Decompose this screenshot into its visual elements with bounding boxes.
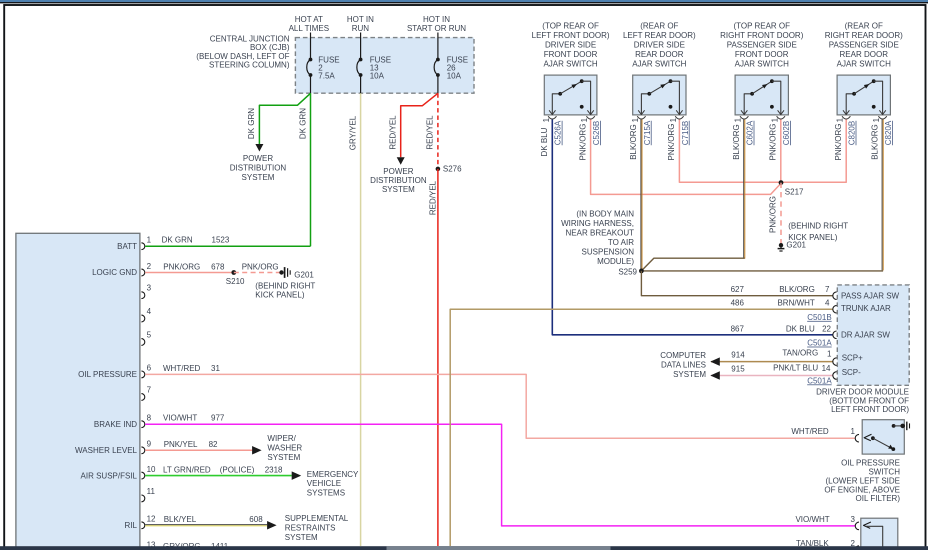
svg-text:PNK/ORG: PNK/ORG xyxy=(242,262,279,271)
svg-text:POWER: POWER xyxy=(383,167,413,176)
svg-text:DK BLU: DK BLU xyxy=(540,127,549,156)
svg-text:START OR RUN: START OR RUN xyxy=(407,24,466,33)
svg-text:867: 867 xyxy=(731,324,745,333)
svg-text:12: 12 xyxy=(147,515,156,524)
svg-text:5: 5 xyxy=(147,330,152,339)
wire BLK/ORG switch2 to S259 xyxy=(640,120,642,271)
svg-text:9: 9 xyxy=(147,440,152,449)
splice S259 xyxy=(639,269,644,274)
svg-text:C526A: C526A xyxy=(554,120,563,145)
svg-text:DATA LINES: DATA LINES xyxy=(661,361,706,370)
wire DK GRN pin 1 to fuse 2 xyxy=(145,245,310,247)
svg-text:PNK/ORG: PNK/ORG xyxy=(667,124,676,161)
svg-text:SYSTEM: SYSTEM xyxy=(267,453,300,462)
fuse 13 xyxy=(360,33,362,60)
svg-text:C501B: C501B xyxy=(807,313,831,322)
svg-text:FRONT DOOR: FRONT DOOR xyxy=(735,50,789,59)
svg-text:DRIVER SIDE: DRIVER SIDE xyxy=(634,41,685,50)
svg-text:HOT AT: HOT AT xyxy=(295,15,323,24)
svg-text:BLK/ORG: BLK/ORG xyxy=(779,285,815,294)
door ajar switch 2 box xyxy=(633,75,686,115)
svg-text:S259: S259 xyxy=(618,267,637,276)
svg-text:915: 915 xyxy=(731,365,745,374)
fuse 2 xyxy=(310,33,312,60)
svg-text:BLK/YEL: BLK/YEL xyxy=(164,515,197,524)
connector pin 4 xyxy=(141,315,144,322)
svg-text:RIGHT FRONT DOOR): RIGHT FRONT DOOR) xyxy=(720,31,804,40)
svg-text:AJAR SWITCH: AJAR SWITCH xyxy=(837,60,891,69)
svg-text:608: 608 xyxy=(249,515,263,524)
svg-text:NEAR BREAKOUT: NEAR BREAKOUT xyxy=(566,228,635,237)
svg-text:PNK/LT BLU: PNK/LT BLU xyxy=(773,364,818,373)
svg-text:(POLICE): (POLICE) xyxy=(220,465,255,474)
svg-text:S210: S210 xyxy=(226,277,245,286)
svg-text:678: 678 xyxy=(211,262,225,271)
svg-text:SYSTEM: SYSTEM xyxy=(285,533,318,542)
svg-text:DISTRIBUTION: DISTRIBUTION xyxy=(230,164,287,173)
svg-text:(BEHIND RIGHT: (BEHIND RIGHT xyxy=(255,281,315,290)
door ajar switch 4 box xyxy=(837,75,890,115)
svg-text:1: 1 xyxy=(770,117,779,122)
svg-text:OIL FILTER): OIL FILTER) xyxy=(856,494,901,503)
svg-text:AJAR SWITCH: AJAR SWITCH xyxy=(543,60,597,69)
svg-text:VIO/WHT: VIO/WHT xyxy=(795,515,829,524)
svg-text:WIRING HARNESS,: WIRING HARNESS, xyxy=(561,219,634,228)
svg-text:WHT/RED: WHT/RED xyxy=(791,427,829,436)
svg-text:C715A: C715A xyxy=(643,120,652,145)
svg-text:WASHER: WASHER xyxy=(267,444,302,453)
DDM pin arcs xyxy=(833,292,837,300)
svg-text:WIPER/: WIPER/ xyxy=(267,434,296,443)
switch 3 open contact dot xyxy=(770,105,774,109)
svg-text:S276: S276 xyxy=(443,164,462,173)
wire LT GRN/RED pin 10 xyxy=(145,475,292,477)
svg-text:OIL PRESSURE: OIL PRESSURE xyxy=(841,459,900,468)
svg-text:3: 3 xyxy=(851,515,856,524)
svg-text:1: 1 xyxy=(147,236,152,245)
svg-text:(TOP REAR OF: (TOP REAR OF xyxy=(733,22,790,31)
svg-text:977: 977 xyxy=(211,414,225,423)
fuse 26 xyxy=(437,33,439,60)
svg-text:MODULE): MODULE) xyxy=(597,257,634,266)
wire GRY/YEL vertical xyxy=(360,93,362,546)
svg-text:COMPUTER: COMPUTER xyxy=(660,351,706,360)
svg-text:SYSTEM: SYSTEM xyxy=(673,370,706,379)
svg-text:WHT/RED: WHT/RED xyxy=(163,364,201,373)
svg-text:(BOTTOM FRONT OF: (BOTTOM FRONT OF xyxy=(829,396,909,405)
svg-text:(REAR OF: (REAR OF xyxy=(845,22,883,31)
svg-text:DR AJAR SW: DR AJAR SW xyxy=(841,330,890,339)
svg-text:(BEHIND RIGHT: (BEHIND RIGHT xyxy=(788,222,848,231)
svg-text:PNK/YEL: PNK/YEL xyxy=(164,440,198,449)
svg-text:LEFT FRONT DOOR): LEFT FRONT DOOR) xyxy=(831,405,909,414)
svg-text:G201: G201 xyxy=(786,241,806,250)
svg-text:DISTRIBUTION: DISTRIBUTION xyxy=(370,176,427,185)
svg-text:EMERGENCY: EMERGENCY xyxy=(307,470,359,479)
svg-text:1: 1 xyxy=(542,117,551,122)
svg-text:LEFT FRONT DOOR): LEFT FRONT DOOR) xyxy=(532,31,610,40)
arrow power distribution (red) xyxy=(397,157,405,165)
svg-text:TO AIR: TO AIR xyxy=(608,238,634,247)
switch 2 contacts and blade xyxy=(641,94,649,115)
bottom module pin 3 arc xyxy=(855,522,859,530)
svg-text:SUSPENSION: SUSPENSION xyxy=(582,247,635,256)
arrow computer data lines (TAN/ORG) xyxy=(710,357,720,366)
svg-text:22: 22 xyxy=(822,324,831,333)
wire BLK/ORG S259 to DDM pin 7 xyxy=(641,271,833,296)
wire PNK/ORG switch4 to S217 xyxy=(781,120,846,183)
svg-text:RED/YEL: RED/YEL xyxy=(428,180,437,215)
svg-text:AJAR SWITCH: AJAR SWITCH xyxy=(735,60,789,69)
splice S210 xyxy=(231,270,236,275)
wire PNK/LT BLU to computer data lines xyxy=(711,375,833,377)
svg-text:1: 1 xyxy=(836,117,845,122)
ground G201 (left) xyxy=(279,270,283,274)
svg-text:OF ENGINE, ABOVE: OF ENGINE, ABOVE xyxy=(824,485,900,494)
svg-text:RUN: RUN xyxy=(352,24,370,33)
svg-text:ALL TIMES: ALL TIMES xyxy=(289,24,329,33)
svg-text:1: 1 xyxy=(631,117,640,122)
wire BRN/WHT to DDM pin 4 xyxy=(450,309,833,546)
svg-text:6: 6 xyxy=(147,364,152,373)
svg-text:14: 14 xyxy=(822,364,831,373)
svg-text:KICK PANEL): KICK PANEL) xyxy=(788,233,838,242)
svg-text:REAR DOOR: REAR DOOR xyxy=(635,50,684,59)
svg-text:BATT: BATT xyxy=(117,242,137,251)
wire PNK/ORG dashed to G201 xyxy=(234,272,282,274)
wire DK GRN branch to power distribution xyxy=(259,93,310,144)
svg-text:BOX (CJB): BOX (CJB) xyxy=(250,43,290,52)
svg-text:DK GRN: DK GRN xyxy=(298,108,307,139)
wire BLK/ORG switch3 to S259 xyxy=(743,120,745,259)
svg-text:C501A: C501A xyxy=(807,376,832,385)
svg-text:AJAR SWITCH: AJAR SWITCH xyxy=(632,60,686,69)
svg-text:LEFT REAR DOOR): LEFT REAR DOOR) xyxy=(623,31,696,40)
central junction box CJB xyxy=(295,38,474,94)
svg-text:GRY/YEL: GRY/YEL xyxy=(348,115,357,150)
svg-text:TAN/ORG: TAN/ORG xyxy=(782,349,818,358)
svg-text:S217: S217 xyxy=(785,188,804,197)
svg-text:2: 2 xyxy=(147,262,152,271)
OPS upper contact to case ground xyxy=(892,424,896,428)
svg-text:SCP+: SCP+ xyxy=(842,354,863,363)
arrow to wiper washer system xyxy=(252,446,262,455)
svg-text:RIL: RIL xyxy=(125,521,138,530)
switch 1 pin chevrons xyxy=(549,110,555,114)
svg-text:TRUNK AJAR: TRUNK AJAR xyxy=(841,304,891,313)
connector pin 11 xyxy=(141,495,144,502)
switch 4 pin chevrons xyxy=(843,110,849,114)
switch 1 contacts and blade xyxy=(552,94,560,115)
bottom scrollbar xyxy=(0,546,928,550)
connector pin 9 xyxy=(141,447,144,454)
window top chrome bar xyxy=(0,0,928,2)
switch 3 pin chevrons xyxy=(741,110,747,114)
svg-text:RESTRAINTS: RESTRAINTS xyxy=(285,524,336,533)
svg-text:RED/YEL: RED/YEL xyxy=(389,115,398,150)
svg-text:(LOWER LEFT SIDE: (LOWER LEFT SIDE xyxy=(825,476,900,485)
wire PNK/YEL pin 9 xyxy=(145,449,252,451)
svg-text:31: 31 xyxy=(211,364,220,373)
switch 4 open contact dot xyxy=(872,105,876,109)
connector pin 12 xyxy=(141,522,144,529)
oil pressure switch box xyxy=(862,420,904,454)
wire PNK/ORG pin 2 to S210 xyxy=(145,272,234,274)
svg-text:SUPPLEMENTAL: SUPPLEMENTAL xyxy=(285,514,349,523)
wire RED/YEL dashed to S276 xyxy=(437,93,439,169)
OPS switch internals xyxy=(864,434,871,440)
door ajar switch 3 box xyxy=(735,75,788,115)
svg-text:2318: 2318 xyxy=(265,465,283,474)
svg-text:BRN/WHT: BRN/WHT xyxy=(777,299,814,308)
wire PNK/ORG switch1 to S217 xyxy=(591,120,781,195)
wire RED/YEL below S276 xyxy=(437,169,439,546)
svg-text:914: 914 xyxy=(731,350,745,359)
svg-text:82: 82 xyxy=(209,440,218,449)
svg-text:CENTRAL JUNCTION: CENTRAL JUNCTION xyxy=(210,34,290,43)
svg-text:C526B: C526B xyxy=(592,121,601,145)
svg-text:7: 7 xyxy=(825,285,830,294)
switch 2 pin chevrons xyxy=(638,110,644,114)
wire RED/YEL branch to power distribution xyxy=(401,93,438,157)
driver door module box xyxy=(837,285,909,385)
connector pin 6 xyxy=(141,371,144,378)
arrow to supplemental restraints system xyxy=(267,521,277,530)
switch 3 contacts and blade xyxy=(744,94,752,115)
svg-text:G201: G201 xyxy=(294,271,314,280)
svg-text:PASSENGER SIDE: PASSENGER SIDE xyxy=(727,41,797,50)
svg-text:10A: 10A xyxy=(370,71,385,80)
svg-text:KICK PANEL): KICK PANEL) xyxy=(255,291,305,300)
switch 2 open contact dot xyxy=(669,105,673,109)
wire WHT/RED pin 6 to oil pressure switch xyxy=(145,374,855,438)
svg-text:C820A: C820A xyxy=(884,120,893,145)
svg-text:SWITCH: SWITCH xyxy=(868,468,900,477)
wire VIO/WHT pin 8 xyxy=(145,424,855,526)
svg-text:DK GRN: DK GRN xyxy=(247,108,256,139)
svg-text:RIGHT REAR DOOR): RIGHT REAR DOOR) xyxy=(825,31,903,40)
switch 1 open contact dot xyxy=(580,105,584,109)
wire PNK/ORG switch2 to S217 xyxy=(679,120,781,183)
svg-text:1: 1 xyxy=(734,117,743,122)
svg-text:VIO/WHT: VIO/WHT xyxy=(163,414,197,423)
svg-text:7.5A: 7.5A xyxy=(318,71,335,80)
ground G201 (right) xyxy=(779,243,783,247)
connector pin 1 xyxy=(141,243,144,250)
svg-text:4: 4 xyxy=(147,307,152,316)
splice S276 xyxy=(436,167,441,172)
bottom module pin arrow and inner box xyxy=(864,522,871,528)
svg-text:1: 1 xyxy=(851,427,856,436)
svg-text:8: 8 xyxy=(147,414,152,423)
connector pin 5 xyxy=(141,339,144,346)
svg-text:1523: 1523 xyxy=(212,236,230,245)
svg-text:PNK/ORG: PNK/ORG xyxy=(769,196,778,233)
svg-text:SYSTEM: SYSTEM xyxy=(382,185,415,194)
svg-text:PASSENGER SIDE: PASSENGER SIDE xyxy=(829,41,899,50)
splice S217 xyxy=(779,180,784,185)
svg-text:BLK/ORG: BLK/ORG xyxy=(629,124,638,160)
svg-text:PASS AJAR SW: PASS AJAR SW xyxy=(841,291,900,300)
svg-text:DRIVER SIDE: DRIVER SIDE xyxy=(545,41,596,50)
svg-text:7: 7 xyxy=(147,385,152,394)
switch 4 contacts and blade xyxy=(846,94,854,115)
svg-text:BRAKE IND: BRAKE IND xyxy=(94,420,137,429)
svg-text:(TOP REAR OF: (TOP REAR OF xyxy=(542,22,599,31)
instrument cluster connector box xyxy=(16,233,140,550)
svg-text:C602A: C602A xyxy=(746,120,755,145)
svg-text:DK GRN: DK GRN xyxy=(162,236,193,245)
wire DK GRN vertical to BATT pin xyxy=(310,93,312,246)
svg-text:11: 11 xyxy=(147,487,156,496)
svg-text:OIL PRESSURE: OIL PRESSURE xyxy=(78,370,137,379)
svg-text:LT GRN/RED: LT GRN/RED xyxy=(163,465,211,474)
svg-text:DK BLU: DK BLU xyxy=(786,324,815,333)
arrow computer data lines (PNK/LT BLU) xyxy=(710,371,720,380)
wire PNK/ORG switch3 to S217 xyxy=(780,120,782,184)
svg-text:WASHER LEVEL: WASHER LEVEL xyxy=(75,446,137,455)
svg-text:C820B: C820B xyxy=(848,121,857,145)
svg-text:PNK/ORG: PNK/ORG xyxy=(163,262,200,271)
svg-text:3: 3 xyxy=(147,284,152,293)
svg-text:PNK/ORG: PNK/ORG xyxy=(834,124,843,161)
svg-text:SYSTEM: SYSTEM xyxy=(242,173,275,182)
svg-text:1: 1 xyxy=(872,117,881,122)
svg-text:(REAR OF: (REAR OF xyxy=(640,22,678,31)
svg-text:BLK/ORG: BLK/ORG xyxy=(870,124,879,160)
svg-text:HOT IN: HOT IN xyxy=(423,15,450,24)
svg-text:(IN BODY MAIN: (IN BODY MAIN xyxy=(576,209,634,218)
arrow power distribution (green) xyxy=(255,144,263,152)
svg-text:1: 1 xyxy=(580,117,589,122)
svg-text:SYSTEMS: SYSTEMS xyxy=(307,489,345,498)
OPS pin 1 arc xyxy=(855,434,859,442)
svg-text:LOGIC GND: LOGIC GND xyxy=(92,268,137,277)
svg-text:1: 1 xyxy=(827,350,832,359)
svg-text:PNK/ORG: PNK/ORG xyxy=(578,124,587,161)
svg-text:10A: 10A xyxy=(447,71,462,80)
wire PNK/ORG dashed S217 to G201 xyxy=(780,183,782,245)
wire DK BLU switch1 to DDM pin 22 xyxy=(552,120,833,335)
svg-text:C501A: C501A xyxy=(807,339,832,348)
door ajar switch 1 box xyxy=(544,75,597,115)
svg-text:STEERING COLUMN): STEERING COLUMN) xyxy=(209,61,290,70)
svg-text:PNK/ORG: PNK/ORG xyxy=(769,124,778,161)
svg-text:1: 1 xyxy=(669,117,678,122)
connector pin 7 xyxy=(141,394,144,401)
bottom right module box xyxy=(861,518,898,550)
arrow to emergency vehicle systems xyxy=(292,471,302,480)
connector pin 8 xyxy=(141,421,144,428)
svg-text:DRIVER DOOR MODULE: DRIVER DOOR MODULE xyxy=(816,388,909,397)
svg-text:FRONT DOOR: FRONT DOOR xyxy=(544,50,598,59)
svg-text:SCP-: SCP- xyxy=(842,368,861,377)
svg-text:10: 10 xyxy=(147,465,156,474)
wire BLK/YEL pin 12 xyxy=(145,524,267,526)
wire BLK/ORG switch4 to S259 xyxy=(881,120,883,271)
svg-text:VEHICLE: VEHICLE xyxy=(307,479,341,488)
bottom module pin 2 arc (clipped) xyxy=(855,546,859,550)
svg-text:AIR SUSP/FSIL: AIR SUSP/FSIL xyxy=(81,471,138,480)
svg-text:4: 4 xyxy=(825,299,830,308)
connector pin 13 xyxy=(141,549,144,550)
svg-text:HOT IN: HOT IN xyxy=(347,15,374,24)
svg-text:C715B: C715B xyxy=(681,121,690,145)
connector pin 10 xyxy=(141,472,144,479)
wire TAN/ORG to computer data lines xyxy=(711,361,833,363)
connector pin 2 xyxy=(141,269,144,276)
connector pin 3 xyxy=(141,292,144,299)
svg-text:486: 486 xyxy=(731,299,745,308)
svg-text:C602B: C602B xyxy=(782,121,791,145)
svg-text:627: 627 xyxy=(731,285,745,294)
svg-text:RED/YEL: RED/YEL xyxy=(426,115,435,150)
svg-text:REAR DOOR: REAR DOOR xyxy=(840,50,889,59)
svg-text:BLK/ORG: BLK/ORG xyxy=(732,124,741,160)
svg-text:POWER: POWER xyxy=(243,154,273,163)
